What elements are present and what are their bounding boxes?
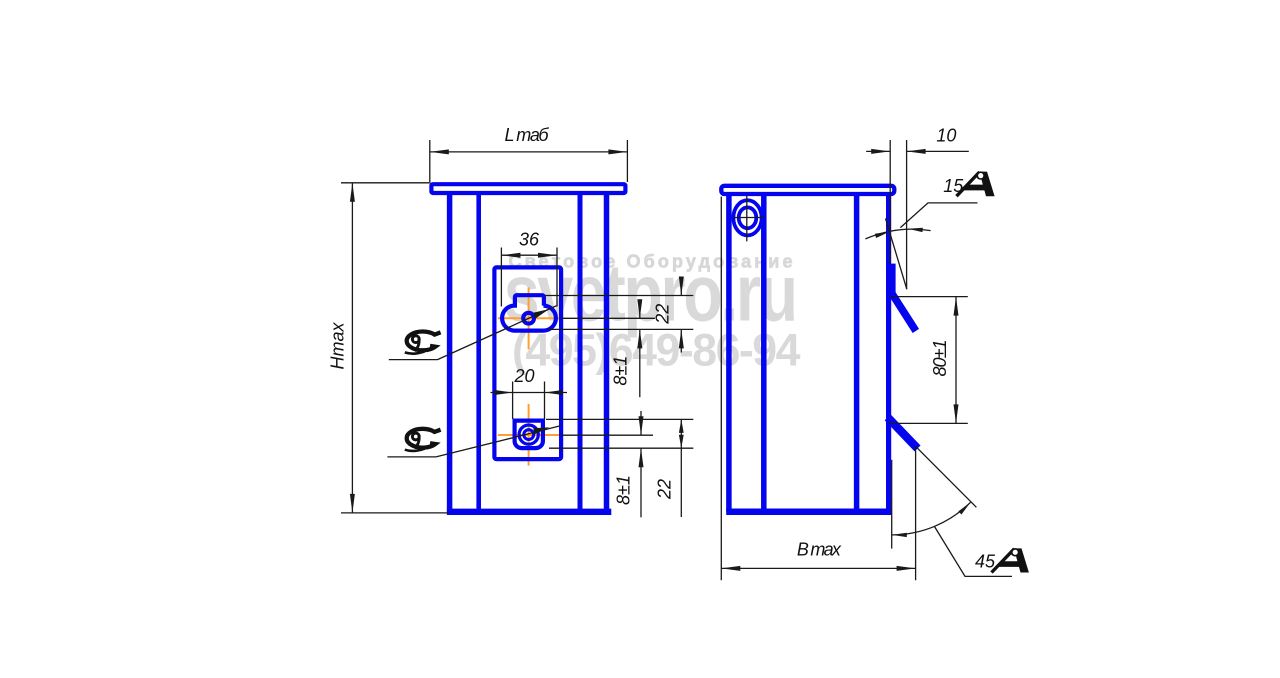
- 80±1 dim line: [955, 297, 957, 424]
- B max dim line: [721, 567, 915, 569]
- side left outer wall: [726, 195, 732, 512]
- L dim ext right: [626, 140, 628, 182]
- 15deg arc arrow left: [875, 232, 890, 238]
- upper socket center ref line: [561, 317, 655, 319]
- 45deg arc arrow top: [958, 502, 970, 514]
- leader lower lampholder: [436, 426, 560, 457]
- svg-text:45: 45: [975, 552, 996, 572]
- 36 ext right: [556, 248, 558, 307]
- B max ext left: [720, 197, 722, 581]
- 20 dim arrow right: [545, 390, 563, 395]
- svg-text:80±1: 80±1: [930, 340, 950, 377]
- side left inner wall: [761, 195, 767, 512]
- side right inner wall: [854, 195, 860, 512]
- right inner wall: [578, 195, 583, 512]
- hanger hole inner ellipse: [739, 207, 757, 228]
- 20 dim arrow left: [495, 390, 513, 395]
- hanger hole centerline H: [733, 217, 765, 219]
- upper socket bottom ref line: [548, 328, 693, 330]
- 45deg arc: [892, 502, 971, 535]
- upper lampholder outline: [502, 295, 556, 330]
- 10 ext left / wall plane line: [889, 140, 891, 264]
- 20 ext right: [544, 382, 546, 420]
- Hmax ext bottom: [341, 512, 449, 514]
- 22 upper arrow seg top: [680, 277, 682, 296]
- 8±1 upper arrow seg top: [639, 304, 641, 318]
- view label A (15): [957, 171, 995, 196]
- view label A (45): [992, 548, 1029, 572]
- lower socket top ref line: [546, 418, 693, 420]
- leader lower arrowhead: [533, 427, 549, 434]
- 10 dim seg left: [866, 150, 890, 152]
- svg-text:Hmax: Hmax: [328, 322, 348, 370]
- svg-text:36: 36: [519, 230, 540, 250]
- L dim ext left: [429, 140, 431, 182]
- 10 dim seg right: [907, 150, 969, 152]
- lamp window rect: [494, 267, 561, 459]
- svg-text:10: 10: [936, 125, 956, 145]
- orange centerlines lower socket: [498, 404, 562, 466]
- 15 label leader: [900, 203, 977, 228]
- upper lampholder pin ring: [523, 313, 534, 324]
- 45 label leader: [934, 526, 1012, 576]
- latch tab lower: [891, 420, 915, 445]
- bottom bar (front): [447, 509, 611, 515]
- leader upper lampholder: [438, 306, 558, 360]
- lower socket center ref line: [561, 434, 653, 436]
- 22 upper arrow seg bottom: [680, 329, 682, 352]
- left outer wall: [447, 195, 453, 512]
- 45deg arc arrow bottom: [892, 533, 907, 537]
- 22 lower dim line: [680, 419, 682, 448]
- 36 dim line: [501, 254, 557, 256]
- 45deg tab extension line: [916, 447, 977, 508]
- 20 dim line: [491, 392, 568, 394]
- 8±1 upper arrow seg bottom: [639, 329, 641, 397]
- wall plane ext below: [891, 460, 893, 549]
- lower lampholder outline: [515, 421, 543, 449]
- svg-text:8±1: 8±1: [614, 475, 634, 505]
- leader upper underline: [389, 359, 438, 361]
- G5 symbol lower: [405, 429, 441, 451]
- top cap (front): [431, 184, 625, 193]
- orange centerlines upper socket: [498, 287, 560, 349]
- 8±1 lower arrow seg top: [640, 411, 642, 435]
- upper socket top ref line: [545, 295, 693, 297]
- svg-text:20: 20: [513, 366, 534, 386]
- arrows drawn as polygons: [495, 228, 971, 537]
- right outer wall: [604, 195, 610, 512]
- svg-text:(495)649-86-94: (495)649-86-94: [512, 324, 800, 375]
- svg-text:22: 22: [652, 304, 672, 325]
- 80±1 ext bottom: [890, 422, 968, 424]
- top cap (side): [721, 186, 894, 194]
- G5 symbol upper: [405, 332, 441, 354]
- 10 ext right / tab tip line: [906, 140, 908, 289]
- 15deg arc arrow right: [908, 228, 923, 232]
- Hmax dim line: [351, 183, 353, 513]
- 15deg arc: [865, 229, 930, 239]
- 22 lower tail: [680, 448, 682, 517]
- svg-text:22: 22: [655, 479, 675, 500]
- dimension texts: [328, 125, 996, 572]
- latch plate upper: [890, 264, 895, 294]
- 36 ext left: [500, 248, 502, 307]
- svg-text:L mаб: L mаб: [505, 125, 550, 145]
- Hmax ext top: [341, 182, 431, 184]
- hanger hole centerline V: [746, 195, 748, 241]
- hanger hole outer ellipse: [733, 200, 761, 235]
- svg-text:8±1: 8±1: [610, 356, 630, 386]
- leader upper arrowhead: [533, 309, 549, 318]
- bottom bar (side): [726, 508, 892, 515]
- lower lampholder inner ring: [524, 430, 534, 440]
- lower lampholder outer ring: [519, 425, 538, 444]
- leader lower underline: [387, 456, 436, 458]
- left inner wall: [476, 195, 481, 512]
- 80±1 ext top: [891, 296, 968, 298]
- L dim line: [430, 151, 628, 153]
- 15deg tab position line: [886, 218, 907, 289]
- 20 ext left: [512, 382, 514, 420]
- B max ext right / tab tip vertical: [915, 447, 917, 581]
- latch tab upper: [892, 293, 914, 328]
- 8±1 lower arrow seg bottom: [640, 448, 642, 517]
- side right outer wall: [886, 196, 891, 512]
- svg-text:B max: B max: [797, 539, 842, 559]
- lower socket bottom ref line: [549, 447, 693, 449]
